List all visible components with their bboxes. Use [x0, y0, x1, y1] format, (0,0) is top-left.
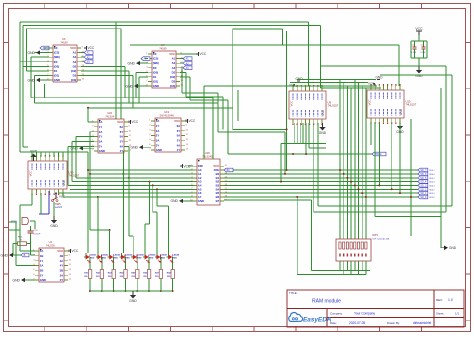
svg-text:GND: GND: [375, 76, 383, 80]
svg-text:LED46: LED46: [149, 253, 156, 256]
svg-text:A2: A2: [172, 61, 176, 65]
svg-text:SD0.5: SD0.5: [429, 178, 434, 180]
svg-text:GND: GND: [127, 61, 135, 65]
svg-text:RED: RED: [173, 257, 178, 259]
svg-text:5Y: 5Y: [177, 138, 181, 142]
svg-text:GND: GND: [170, 199, 178, 203]
svg-text:GND: GND: [198, 199, 204, 203]
svg-text:|WE|: |WE|: [153, 61, 159, 65]
svg-text:VCC: VCC: [72, 249, 79, 253]
svg-text:GND: GND: [129, 299, 137, 303]
svg-text:|O2|: |O2|: [71, 69, 77, 73]
svg-text:D0: D0: [54, 60, 58, 64]
svg-text:VCC: VCC: [29, 170, 33, 176]
svg-text:0.01uF: 0.01uF: [34, 234, 41, 236]
svg-text:SD_0: SD_0: [420, 196, 427, 199]
svg-text:3A: 3A: [99, 139, 103, 143]
svg-text:RED: RED: [90, 257, 95, 259]
svg-text:RED: RED: [114, 257, 119, 259]
svg-text:3Y: 3Y: [60, 278, 64, 282]
svg-text:VCC: VCC: [368, 99, 372, 105]
svg-text:VCC: VCC: [70, 46, 76, 50]
svg-text:2A: 2A: [99, 130, 103, 134]
svg-text:GND: GND: [153, 84, 159, 88]
svg-text:|O3|: |O3|: [170, 84, 176, 88]
svg-text:2A: 2A: [156, 129, 160, 133]
svg-text:VCC: VCC: [174, 119, 180, 123]
svg-text:GND: GND: [12, 278, 20, 282]
svg-text:D3: D3: [73, 74, 77, 78]
svg-text:VCC: VCC: [88, 46, 95, 50]
svg-text:GND: GND: [40, 278, 46, 282]
svg-text:LED42: LED42: [102, 253, 109, 256]
svg-text:2A: 2A: [40, 264, 44, 268]
svg-text:PROG: PROG: [375, 153, 382, 156]
svg-text:REV:: REV:: [436, 298, 443, 302]
svg-text:RED: RED: [137, 257, 142, 259]
svg-text:GND: GND: [156, 148, 162, 152]
svg-text:SN74LS04N: SN74LS04N: [159, 113, 174, 117]
svg-text:VCC: VCC: [415, 27, 423, 31]
svg-text:SD0.4: SD0.4: [429, 182, 434, 184]
svg-text:D1: D1: [153, 75, 157, 79]
svg-text:74LS157: 74LS157: [406, 103, 417, 107]
svg-text:SD_2: SD_2: [420, 188, 427, 191]
svg-text:RED: RED: [149, 257, 154, 259]
svg-text:SD_4: SD_4: [420, 181, 427, 184]
svg-text:|CS|: |CS|: [54, 51, 60, 55]
svg-text:|O3|: |O3|: [71, 78, 77, 82]
svg-text:VCC: VCC: [59, 195, 66, 199]
svg-text:|O1|: |O1|: [54, 74, 60, 78]
svg-text:3Y: 3Y: [156, 143, 160, 147]
svg-text:GND: GND: [27, 51, 35, 55]
svg-text:GND: GND: [0, 253, 8, 257]
svg-text:DIP1: DIP1: [373, 234, 379, 237]
svg-text:0.1uF: 0.1uF: [421, 52, 427, 54]
svg-text:GND: GND: [130, 146, 138, 150]
svg-text:TITLE:: TITLE:: [289, 291, 298, 295]
svg-text:4Y: 4Y: [60, 264, 64, 268]
svg-text:2020-07-05: 2020-07-05: [349, 321, 366, 325]
svg-text:D2: D2: [73, 64, 77, 68]
svg-text:2Y: 2Y: [156, 134, 160, 138]
svg-text:GND: GND: [449, 246, 457, 250]
svg-text:B7: B7: [216, 199, 220, 203]
svg-text:Sheet:: Sheet:: [436, 312, 444, 316]
svg-text:GND: GND: [54, 78, 60, 82]
svg-text:A0: A0: [153, 52, 157, 56]
svg-text:LED48: LED48: [173, 253, 180, 256]
svg-text:SD0.3: SD0.3: [429, 185, 434, 187]
svg-text:3B: 3B: [60, 268, 64, 272]
svg-text:1Y: 1Y: [99, 125, 103, 129]
svg-text:5A: 5A: [120, 135, 124, 139]
svg-text:VCC: VCC: [132, 120, 139, 124]
svg-text:2Y: 2Y: [40, 273, 44, 277]
svg-text:A1: A1: [172, 57, 176, 61]
svg-text:4A: 4A: [60, 259, 64, 263]
svg-text:LED47: LED47: [161, 253, 168, 256]
svg-text:RAM module: RAM module: [312, 299, 341, 305]
svg-text:SD_3: SD_3: [420, 185, 427, 188]
svg-text:SD_7: SD_7: [420, 169, 427, 172]
svg-text:1A: 1A: [99, 120, 103, 124]
svg-text:1/1: 1/1: [455, 312, 460, 316]
svg-text:A0: A0: [54, 46, 58, 50]
svg-text:6A: 6A: [120, 125, 124, 129]
svg-text:2B: 2B: [40, 268, 44, 272]
svg-text:A1: A1: [73, 51, 77, 55]
svg-text:74189: 74189: [159, 46, 167, 50]
svg-text:VCC: VCC: [290, 100, 294, 106]
svg-text:SD0.6: SD0.6: [429, 174, 434, 176]
svg-text:GND: GND: [319, 131, 327, 135]
svg-text:1B: 1B: [40, 254, 44, 258]
svg-text:Drawn By:: Drawn By:: [387, 321, 400, 325]
svg-text:VCC: VCC: [200, 52, 207, 56]
svg-text:A3: A3: [172, 66, 176, 70]
svg-text:6Y: 6Y: [177, 129, 181, 133]
svg-text:1Y: 1Y: [156, 124, 160, 128]
svg-text:D1: D1: [54, 69, 58, 73]
svg-text:SD0.1: SD0.1: [429, 193, 434, 195]
svg-text:GND: GND: [62, 180, 66, 186]
svg-text:GND: GND: [125, 84, 133, 88]
svg-text:dirkssmichiel: dirkssmichiel: [413, 321, 432, 325]
svg-text:A3: A3: [73, 60, 77, 64]
svg-text:D2: D2: [172, 70, 176, 74]
svg-text:74LS04: 74LS04: [105, 114, 115, 118]
svg-text:74LS00: 74LS00: [46, 243, 56, 247]
svg-text:GND: GND: [321, 110, 325, 116]
svg-text:switch: switch: [55, 205, 63, 209]
svg-text:|O1|: |O1|: [153, 80, 159, 84]
svg-text:3A: 3A: [156, 138, 160, 142]
svg-text:SD_1: SD_1: [420, 192, 427, 195]
svg-text:D0: D0: [153, 66, 157, 70]
svg-text:4A: 4A: [177, 143, 181, 147]
svg-text:D3: D3: [172, 80, 176, 84]
svg-text:SD_6: SD_6: [420, 173, 427, 176]
svg-text:RED: RED: [102, 257, 107, 259]
svg-text:2Y: 2Y: [99, 135, 103, 139]
svg-text:1Y: 1Y: [40, 259, 44, 263]
svg-text:GND: GND: [399, 109, 403, 115]
svg-text:4A: 4A: [120, 144, 124, 148]
svg-text:A2: A2: [73, 55, 77, 59]
svg-text:|O0|: |O0|: [153, 70, 159, 74]
svg-text:74LS157: 74LS157: [69, 174, 80, 178]
svg-text:LED44: LED44: [125, 253, 132, 256]
svg-text:74189: 74189: [60, 40, 68, 44]
svg-text:SD0.2: SD0.2: [429, 189, 434, 191]
svg-text:RED: RED: [161, 257, 166, 259]
svg-text:5A: 5A: [177, 134, 181, 138]
svg-text:LED43: LED43: [114, 253, 121, 256]
svg-text:Company:: Company:: [330, 312, 343, 316]
svg-text:GND: GND: [27, 78, 35, 82]
svg-text:DIP switch(D-S8): DIP switch(D-S8): [373, 238, 390, 241]
svg-text:|O2|: |O2|: [170, 75, 176, 79]
svg-text:6Y: 6Y: [120, 130, 124, 134]
svg-text:SD0.0: SD0.0: [429, 197, 434, 199]
svg-text:SD_5: SD_5: [420, 177, 427, 180]
svg-text:U3A: U3A: [11, 220, 18, 224]
svg-text:3Y: 3Y: [99, 144, 103, 148]
svg-text:RED: RED: [125, 257, 130, 259]
svg-text:GND: GND: [99, 149, 105, 153]
svg-text:1A: 1A: [156, 119, 160, 123]
svg-text:LED41: LED41: [90, 253, 97, 256]
svg-text:VCC: VCC: [117, 120, 123, 124]
svg-text:GND: GND: [50, 224, 58, 228]
svg-text:|O0|: |O0|: [54, 64, 60, 68]
svg-text:VCC: VCC: [189, 119, 196, 123]
svg-text:LED45: LED45: [137, 253, 144, 256]
svg-text:Your Company: Your Company: [354, 312, 375, 316]
svg-text:5Y: 5Y: [120, 139, 124, 143]
svg-text:EasyEDA: EasyEDA: [303, 317, 332, 324]
svg-text:SD0.7: SD0.7: [429, 170, 434, 172]
svg-text:|CS|: |CS|: [153, 57, 159, 61]
svg-text:74LS157: 74LS157: [328, 104, 339, 108]
svg-text:3A: 3A: [60, 273, 64, 277]
svg-text:VCC: VCC: [57, 249, 63, 253]
svg-text:4Y: 4Y: [177, 148, 181, 152]
svg-text:4B: 4B: [60, 254, 64, 258]
svg-text:1A: 1A: [40, 249, 44, 253]
svg-text:0.1uF: 0.1uF: [411, 52, 417, 54]
svg-text:VCC: VCC: [169, 52, 175, 56]
svg-text:6A: 6A: [177, 124, 181, 128]
svg-text:4Y: 4Y: [120, 149, 124, 153]
svg-text:1.0: 1.0: [448, 298, 453, 302]
svg-text:|WE|: |WE|: [54, 55, 60, 59]
